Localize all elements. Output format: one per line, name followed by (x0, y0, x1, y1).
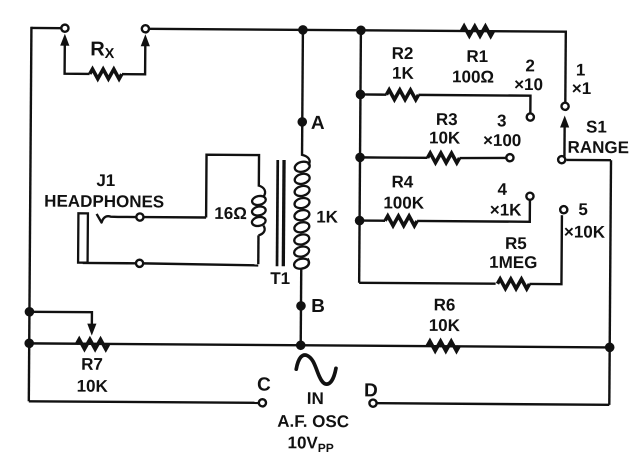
svg-text:×1K: ×1K (490, 200, 523, 219)
svg-text:T1: T1 (270, 269, 290, 288)
wire left vertical bus (29, 27, 32, 401)
node top junction bank (356, 25, 366, 35)
svg-text:A: A (311, 113, 325, 134)
svg-text:1K: 1K (392, 64, 415, 83)
terminal headphone sleeve (136, 260, 143, 267)
node R2 bus junction (356, 90, 366, 100)
svg-text:1MEG: 1MEG (489, 253, 537, 272)
node main bus right junction (605, 342, 615, 352)
arrow R7 wiper (87, 324, 96, 336)
svg-text:×10: ×10 (514, 75, 543, 94)
wire R5 to contact 5 (529, 215, 561, 284)
svg-text:A.F. OSC: A.F. OSC (277, 412, 349, 432)
jack J1 plug body (78, 213, 88, 262)
svg-text:10K: 10K (429, 316, 461, 335)
wire Rx right lead (122, 44, 145, 75)
svg-text:R1: R1 (466, 47, 488, 66)
svg-text:16Ω: 16Ω (214, 204, 247, 223)
terminal Rx right probe (142, 25, 149, 32)
wire Rx left lead (65, 43, 90, 74)
switch contact 4 (526, 193, 533, 200)
svg-text:2: 2 (525, 56, 535, 75)
resistor R6 (427, 341, 459, 351)
wire top-left stub (31, 27, 61, 30)
svg-text:RANGE: RANGE (568, 138, 630, 157)
wire terminal C row (29, 401, 259, 403)
svg-text:C: C (257, 374, 271, 395)
svg-text:B: B (311, 296, 325, 317)
svg-text:1: 1 (576, 60, 586, 79)
node A (297, 117, 307, 127)
svg-text:100K: 100K (383, 193, 424, 212)
node B (296, 301, 306, 311)
switch contact 1 (561, 103, 568, 110)
svg-text:×100: ×100 (483, 131, 521, 150)
switch S1 wiper arrow (560, 115, 569, 127)
svg-text:100Ω: 100Ω (452, 67, 494, 86)
svg-text:5: 5 (578, 200, 588, 219)
svg-text:J1: J1 (96, 171, 115, 190)
wire right drop to range contact 1 (564, 31, 567, 103)
wire R4 to contact 4 (417, 199, 530, 222)
wire R2 to contact 2 (418, 95, 530, 114)
wire S1 common to right bus (567, 159, 611, 162)
wire R2 left lead (360, 93, 386, 96)
svg-text:4: 4 (498, 180, 508, 199)
svg-text:R5: R5 (505, 234, 527, 253)
arrow Rx right probe (141, 34, 150, 46)
transformer T1 primary winding (294, 160, 311, 173)
svg-text:×10K: ×10K (564, 222, 606, 241)
switch S1 common terminal (558, 156, 565, 163)
switch contact 3 (506, 154, 513, 161)
svg-text:IN: IN (307, 389, 324, 408)
svg-text:R4: R4 (391, 172, 413, 191)
svg-text:S1: S1 (586, 117, 607, 136)
wire R5 left lead (359, 282, 495, 285)
wire R3 left lead (360, 156, 427, 159)
svg-text:10K: 10K (77, 377, 109, 396)
svg-text:3: 3 (497, 111, 507, 130)
wire R3 to contact 3 (460, 156, 507, 159)
node R3 bus junction (355, 153, 365, 163)
svg-text:×1: ×1 (572, 79, 592, 98)
node main bus primary junction (296, 340, 306, 350)
wire secondary bottom lead (257, 235, 260, 264)
node R4 bus junction (355, 216, 365, 226)
transformer T1 secondary winding (251, 195, 266, 206)
resistor R2 (386, 90, 418, 100)
svg-text:R6: R6 (434, 295, 456, 314)
terminal C (259, 399, 266, 406)
arrow Rx left probe (60, 34, 69, 46)
sine symbol AF oscillator (296, 355, 336, 384)
resistor R5 (497, 279, 529, 289)
wire right vertical bus (609, 160, 611, 405)
resistor R7 (76, 339, 108, 349)
svg-text:R3: R3 (436, 110, 458, 129)
svg-text:10K: 10K (429, 128, 461, 147)
node main bus left junction (24, 338, 34, 348)
terminal headphone tip (136, 213, 143, 220)
wire R7 wiper tap (29, 312, 92, 326)
svg-text:R2: R2 (392, 44, 414, 63)
wire primary top lead (301, 30, 304, 156)
wire secondary loop (206, 155, 259, 218)
wire top horizontal bus (148, 29, 565, 32)
svg-text:R7: R7 (81, 355, 103, 374)
switch contact 5 (560, 206, 567, 213)
node wiper tap junction (25, 307, 35, 317)
wire terminal D row (377, 403, 609, 405)
terminal D (369, 400, 376, 407)
wire primary bottom lead (300, 269, 303, 346)
wire bottom main bus (29, 343, 609, 347)
wire headphone sleeve (83, 262, 136, 265)
svg-text:D: D (364, 380, 378, 401)
jack J1 tip contact (97, 214, 136, 223)
svg-text:1K: 1K (316, 207, 339, 226)
wire R4 left lead (360, 219, 385, 222)
terminal Rx left probe (61, 25, 68, 32)
resistor R1 (461, 26, 493, 36)
wire sleeve to secondary (144, 263, 259, 265)
transformer T1 core (276, 160, 279, 266)
svg-text:HEADPHONES: HEADPHONES (44, 192, 164, 212)
node top junction primary (298, 25, 308, 35)
switch contact 2 (527, 113, 534, 120)
wire headphone tip to secondary (144, 216, 206, 219)
resistor R4 (385, 216, 417, 226)
resistor RX (90, 69, 122, 79)
resistor R3 (427, 153, 459, 163)
wire bank vertical bus (359, 30, 361, 282)
